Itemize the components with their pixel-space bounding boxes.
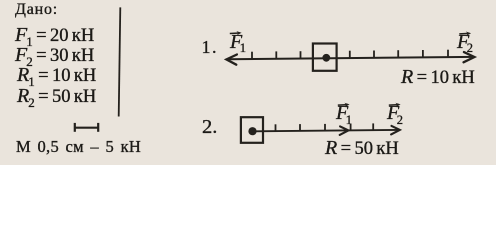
diagram 1 tick e — [373, 51, 375, 59]
diagram 2 tick a — [275, 124, 277, 131]
scale marker left tick — [74, 123, 76, 132]
force F1 arrowhead diagram 2 — [340, 126, 349, 134]
diagram 1 tick a — [251, 52, 253, 60]
given F1 value — [15, 20, 94, 50]
diagram 1 tick g — [422, 50, 424, 58]
diagram 1 number — [202, 32, 219, 62]
separator line between given block and diagrams — [119, 7, 121, 116]
diagram 1 label F2 — [457, 27, 473, 57]
diagram 1 label F1 — [230, 27, 246, 57]
force F2 arrowhead diagram 2 — [391, 126, 400, 134]
diagram 1 tick c — [300, 51, 302, 59]
diagram 2 number — [202, 112, 217, 142]
given F2 value — [15, 40, 94, 70]
diagram 1 tick b — [275, 51, 277, 59]
force F2 arrowhead diagram 1 (right) — [464, 52, 475, 62]
body center dot diagram 2 — [248, 127, 256, 135]
scale marker bar — [74, 127, 99, 129]
diagram 2 tick d — [350, 124, 352, 131]
body box diagram 1 — [313, 44, 337, 71]
scale caption — [16, 132, 141, 162]
vector bar over F2 label diagram 2 — [389, 104, 399, 107]
diagram 1 resultant caption — [401, 62, 475, 92]
vector bar over F2 label diagram 1 — [459, 32, 469, 35]
diagram 1 tick f — [397, 50, 399, 58]
vector bar over F1 label diagram 1 — [230, 32, 240, 35]
diagram 2 tick b — [299, 124, 301, 131]
force F1 arrowhead diagram 1 (left) — [226, 55, 237, 65]
given R2 value — [17, 81, 96, 111]
body box diagram 2 — [241, 117, 263, 143]
diagram 1 tick h — [447, 50, 449, 58]
diagram 2 resultant caption — [325, 133, 399, 163]
diagram 2 label F1 — [336, 98, 352, 128]
diagram 2 tick e — [372, 123, 374, 130]
given R1 value — [17, 60, 96, 90]
diagram 1 tick d — [349, 51, 351, 59]
body center dot diagram 1 — [322, 54, 330, 62]
diagram 2 axis line — [253, 130, 400, 131]
diagram 1 axis line — [227, 57, 474, 59]
given block heading — [15, 0, 58, 25]
diagram 2 tick c — [324, 124, 326, 131]
vector bar over F1 label diagram 2 — [338, 104, 348, 107]
scale marker right tick — [97, 123, 99, 132]
diagram 2 label F2 — [387, 98, 403, 128]
